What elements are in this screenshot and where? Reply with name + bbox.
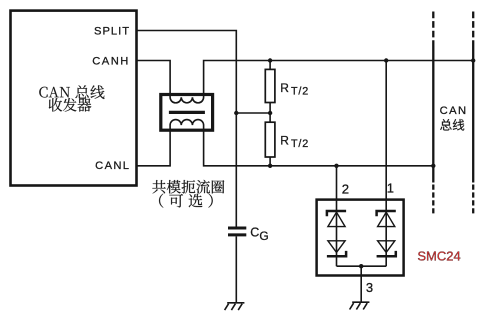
node: R chain bottom on CANL bbox=[268, 164, 272, 168]
svg-text:CANH: CANH bbox=[92, 56, 130, 68]
resistor R T/2 upper body bbox=[269, 61, 271, 70]
CAN bus transceiver block U1 bbox=[11, 11, 137, 186]
svg-text:1: 1 bbox=[387, 181, 394, 196]
internal bar joining diode legs bbox=[337, 265, 387, 267]
resistor R T/2 lower body bbox=[265, 122, 275, 157]
svg-text:R: R bbox=[280, 133, 289, 147]
svg-text:CANL: CANL bbox=[95, 160, 130, 172]
wire: pin 3 down to ground bbox=[360, 266, 362, 302]
choke winding top (CANH) bbox=[170, 95, 204, 103]
node: pin2 tap on CANL bbox=[334, 164, 338, 168]
common-mode choke L1 box bbox=[161, 95, 213, 131]
node: CANH to right bus line bbox=[471, 58, 475, 62]
node: pin1 tap on CANH bbox=[384, 58, 388, 62]
svg-text:C: C bbox=[250, 225, 259, 239]
ground symbol at pin 3 bbox=[352, 301, 369, 303]
TVS array SMC24 box bbox=[317, 200, 404, 276]
svg-text:SMC24: SMC24 bbox=[417, 248, 460, 263]
wire: below capacitor down to ground bbox=[235, 236, 237, 302]
wire: SPLIT from transceiver right then down to capacitor bbox=[137, 31, 237, 227]
ground symbol under CG bbox=[227, 302, 244, 304]
choke label line 2: （可选） bbox=[159, 194, 213, 208]
node: R chain top on CANH bbox=[268, 58, 272, 62]
block text: CAN bbox=[39, 87, 70, 98]
node: pin3 junction bbox=[359, 264, 363, 268]
wire: CANH after choke to bus bbox=[204, 61, 474, 98]
svg-text:3: 3 bbox=[366, 280, 373, 295]
svg-text:2: 2 bbox=[342, 181, 349, 196]
svg-text:T/2: T/2 bbox=[291, 138, 309, 150]
CAN bus line left (dashed-solid-dashed) bbox=[432, 12, 434, 47]
block text: 总线 bbox=[75, 85, 104, 99]
block text: 收发器 bbox=[49, 98, 92, 112]
TVS diode pair D1 (pin 2 leg) bbox=[327, 211, 346, 216]
wire: pin 2 from CANL down into TVS box bbox=[336, 166, 338, 266]
node: resistor midpoint bbox=[268, 111, 272, 115]
svg-text:CAN: CAN bbox=[440, 105, 468, 117]
wire: CANL after choke to bus bbox=[204, 125, 434, 166]
node: SPLIT to resistor mid stub bbox=[234, 111, 238, 115]
wire: CANH from transceiver to choke bbox=[137, 61, 171, 98]
choke label line 1: 共模扼流圈 bbox=[152, 180, 224, 194]
capacitor CG plates bbox=[228, 227, 246, 230]
svg-text:G: G bbox=[259, 229, 268, 243]
choke core bar bbox=[169, 111, 205, 114]
wire: CANL from transceiver to choke bbox=[137, 125, 171, 166]
stub from SPLIT line to resistor midpoint bbox=[236, 112, 270, 114]
svg-text:T/2: T/2 bbox=[291, 86, 309, 98]
svg-text:SPLIT: SPLIT bbox=[94, 25, 130, 37]
node: CANL to left bus line bbox=[431, 164, 435, 168]
svg-text:R: R bbox=[280, 81, 289, 95]
wire: pin 1 from CANH down into TVS box bbox=[385, 61, 387, 267]
TVS diode pair D2 (pin 1 leg) bbox=[377, 211, 396, 216]
CAN bus line right (dashed-solid-dashed) bbox=[472, 12, 474, 47]
wire between resistors bbox=[269, 103, 271, 123]
choke winding bottom (CANL) bbox=[170, 120, 204, 131]
bus label 总线 bbox=[440, 119, 464, 131]
